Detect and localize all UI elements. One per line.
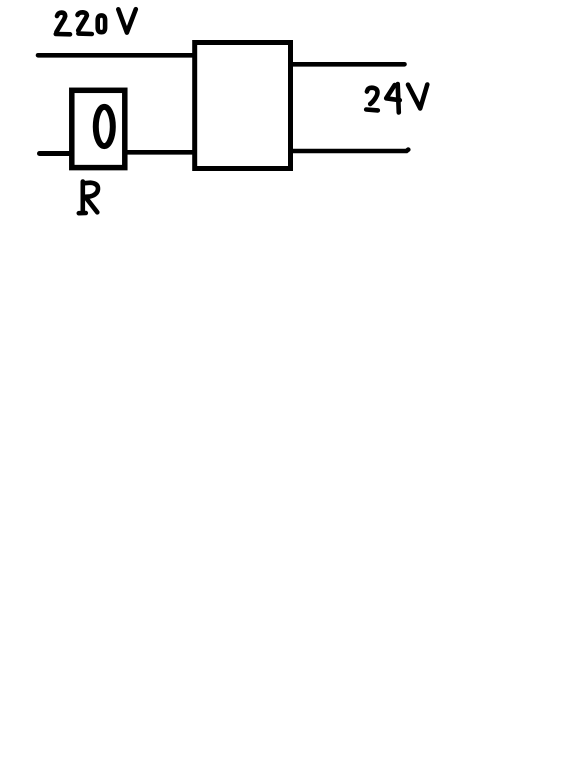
resistor R (rectangular body) <box>72 90 125 167</box>
wire (220V top line into box) <box>38 53 194 58</box>
wire (24V output top) <box>291 62 405 67</box>
net label 24V <box>366 84 427 113</box>
transformer T1 (220V to 24V converter box) <box>195 43 291 169</box>
wire (left lead into resistor R) <box>40 151 71 156</box>
reference label R <box>79 182 98 214</box>
net label 220V <box>56 9 136 34</box>
value mark 0 inside resistor R <box>96 107 113 146</box>
wire (resistor R to transformer box) <box>127 150 194 155</box>
wire (24V output bottom) <box>291 150 408 151</box>
